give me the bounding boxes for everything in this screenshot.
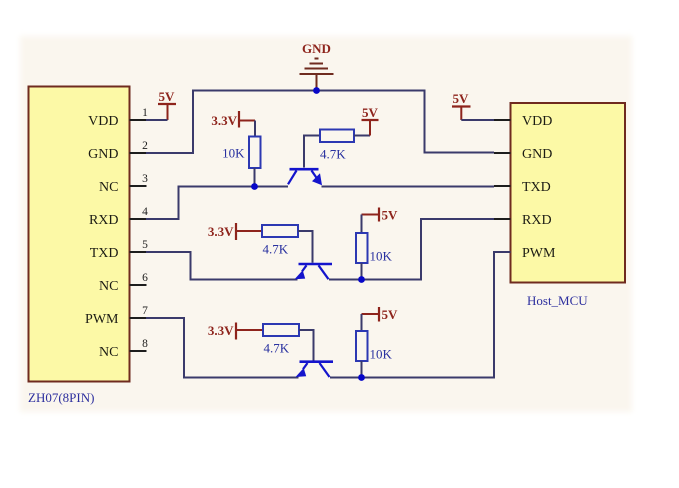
svg-text:3.3V: 3.3V <box>211 113 237 128</box>
resistor R4 10K (row 2, vertical) <box>356 233 393 264</box>
svg-text:10K: 10K <box>222 146 245 161</box>
junction on GND rail below ground symbol <box>313 87 320 94</box>
wire 3.3V to R1 top (row 1) <box>254 121 256 138</box>
svg-text:5: 5 <box>142 239 148 251</box>
wire row-2 rail right segment up to U2 RXD <box>329 219 494 280</box>
power symbol 5V at U2 VDD <box>452 91 471 120</box>
wire row-1 rail right segment to U2 TXD <box>322 186 495 188</box>
svg-text:2: 2 <box>142 140 148 152</box>
wire RXD net: U1 pin4 up to row-1 rail left segment <box>146 187 288 220</box>
pin 5 TXD of U1 <box>90 239 148 261</box>
ground symbol GND top <box>300 41 334 91</box>
svg-text:4.7K: 4.7K <box>264 341 290 356</box>
resistor R5 4.7K (row 3, horizontal) <box>263 324 299 356</box>
svg-text:4.7K: 4.7K <box>320 147 346 162</box>
wire PWM net: U1 pin7 down to row-3 rail left segment <box>146 318 299 378</box>
svg-text:GND: GND <box>302 41 331 56</box>
resistor R3 4.7K (row 2, horizontal) <box>262 225 298 257</box>
svg-text:NC: NC <box>99 279 118 294</box>
svg-text:5V: 5V <box>382 208 399 223</box>
pin 3 NC of U1 <box>99 173 148 195</box>
pin 1 VDD of U1 <box>88 107 148 129</box>
svg-text:5V: 5V <box>382 307 399 322</box>
power symbol 5V row 3 <box>362 307 399 322</box>
svg-text:8: 8 <box>142 338 148 350</box>
pin RXD of U2 <box>494 213 552 228</box>
wire TXD net: U1 pin5 down to row-2 rail left segment <box>146 252 298 280</box>
transistor Q3 (row 3) <box>296 362 334 377</box>
power symbol 5V at U1 pin 1 <box>158 89 176 120</box>
junction R1 bottom on row-1 rail <box>251 183 258 190</box>
power symbol 3.3V row 1 <box>211 111 255 128</box>
wire pin1 VDD to 5V stem <box>146 119 168 121</box>
IC U1 ZH07(8PIN) body <box>29 87 130 382</box>
power symbol 3.3V row 3 <box>208 323 263 340</box>
pin PWM of U2 <box>494 246 556 261</box>
svg-text:5V: 5V <box>362 105 379 120</box>
pin 8 NC of U1 <box>99 338 148 360</box>
svg-text:GND: GND <box>522 147 552 162</box>
transistor Q1 (row 1) <box>288 169 322 185</box>
svg-text:RXD: RXD <box>522 213 552 228</box>
pin 6 NC of U1 <box>99 272 148 294</box>
svg-text:TXD: TXD <box>90 246 119 261</box>
svg-text:4.7K: 4.7K <box>263 242 289 257</box>
schematic sheet background <box>20 36 632 412</box>
svg-text:10K: 10K <box>370 347 393 362</box>
pin GND of U2 <box>494 147 552 162</box>
svg-text:3.3V: 3.3V <box>208 323 234 338</box>
resistor R6 10K (row 3, vertical) <box>356 331 393 362</box>
svg-text:PWM: PWM <box>522 246 556 261</box>
svg-text:VDD: VDD <box>88 114 118 129</box>
wire R6 bottom to row-3 rail <box>361 361 363 378</box>
pin 7 PWM of U1 <box>85 305 148 327</box>
pin 2 GND of U1 <box>88 140 148 162</box>
IC U2 Host_MCU body <box>511 103 626 283</box>
svg-text:PWM: PWM <box>85 312 119 327</box>
pin 4 RXD of U1 <box>89 206 148 228</box>
svg-text:NC: NC <box>99 345 118 360</box>
svg-text:NC: NC <box>99 180 118 195</box>
pin TXD of U2 <box>494 180 551 195</box>
svg-text:Host_MCU: Host_MCU <box>527 293 588 308</box>
svg-text:VDD: VDD <box>522 114 552 129</box>
junction R6 bottom on row-3 rail <box>358 374 365 381</box>
svg-text:3: 3 <box>142 173 148 185</box>
transistor Q2 (row 2) <box>295 264 333 279</box>
svg-text:10K: 10K <box>370 249 393 264</box>
svg-text:3.3V: 3.3V <box>208 224 234 239</box>
wire Q1 collector to R2 (row 1) <box>304 136 320 168</box>
svg-text:1: 1 <box>142 107 148 119</box>
power symbol 5V row 1 <box>362 105 379 136</box>
resistor R1 10K (row 1, vertical) <box>222 137 260 169</box>
wire 5V to R6 top (row 3) <box>361 314 363 331</box>
svg-text:TXD: TXD <box>522 180 551 195</box>
power symbol 5V row 2 <box>362 208 399 223</box>
svg-text:7: 7 <box>142 305 148 317</box>
svg-text:6: 6 <box>142 272 148 284</box>
svg-text:4: 4 <box>142 206 148 218</box>
svg-text:5V: 5V <box>453 91 470 106</box>
wire 5V to R4 top (row 2) <box>361 215 363 234</box>
wire row-3 rail right segment up to U2 PWM <box>330 252 511 378</box>
wire R4 bottom to row-2 rail <box>361 263 363 280</box>
svg-text:ZH07(8PIN): ZH07(8PIN) <box>28 390 94 405</box>
svg-text:5V: 5V <box>159 89 176 104</box>
svg-text:GND: GND <box>88 147 118 162</box>
wire GND net: U1 pin2 to top rail to U2 GND <box>146 91 494 154</box>
wire R3 right to Q2 base (row 2) <box>298 231 313 263</box>
wire R2 right to 5V stem (row 1) <box>354 135 370 137</box>
power symbol 3.3V row 2 <box>208 223 262 240</box>
wire R1 bottom to row-1 rail <box>254 168 256 187</box>
svg-text:RXD: RXD <box>89 213 119 228</box>
junction R4 bottom on row-2 rail <box>358 276 365 283</box>
wire R5 right to Q3 base (row 3) <box>299 330 314 361</box>
resistor R2 4.7K (row 1, horizontal) <box>320 130 354 162</box>
wire 5V stem to U2 VDD <box>461 119 494 121</box>
pin VDD of U2 <box>494 114 552 129</box>
